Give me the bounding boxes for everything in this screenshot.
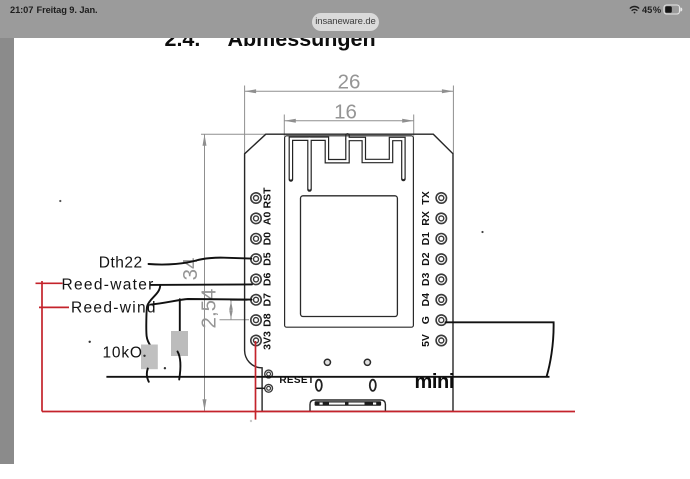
svg-text:D5: D5: [262, 252, 274, 266]
svg-text:Dth22: Dth22: [99, 255, 143, 272]
ink dot D: [250, 420, 252, 422]
pin D4: [420, 293, 446, 307]
pin D7: [251, 293, 274, 307]
svg-text:16: 16: [334, 101, 357, 124]
pin D2: [420, 252, 446, 266]
svg-text:TX: TX: [420, 191, 432, 204]
pin 3V3: [251, 331, 274, 350]
svg-text:D4: D4: [420, 293, 432, 307]
dimension 2,54: [220, 300, 250, 319]
svg-text:D8: D8: [262, 313, 274, 327]
oval pad right: [370, 380, 376, 391]
pin D5: [251, 252, 274, 266]
ink dot C: [164, 367, 166, 369]
mounting hole left: [324, 359, 330, 365]
pin D0: [251, 232, 274, 246]
svg-text:D2: D2: [420, 252, 432, 266]
pin D6: [251, 273, 274, 287]
resistor R1 (10kO): [141, 345, 158, 370]
dimension 34: [201, 134, 266, 411]
pin D1: [420, 232, 446, 246]
mounting hole right: [364, 359, 370, 365]
svg-text:10kO: 10kO: [103, 344, 143, 361]
pdf viewer left margin: [0, 38, 14, 464]
svg-text:Reed-wind: Reed-wind: [71, 300, 157, 317]
svg-text:A0: A0: [262, 212, 274, 226]
pin TX: [420, 191, 446, 204]
svg-text:D3: D3: [420, 273, 432, 287]
svg-text:2,54: 2,54: [198, 289, 221, 329]
wifi icon: [630, 6, 638, 13]
pin D8: [251, 313, 274, 327]
svg-text:5V: 5V: [420, 334, 432, 347]
shield can: [301, 196, 398, 317]
iPad status bar: [0, 0, 690, 38]
ink dot B: [143, 355, 145, 357]
wire junction drop to resistor R1: [146, 285, 160, 347]
wire Reed-water to pin D6: [151, 283, 253, 286]
wire junction drop to resistor R2: [179, 299, 181, 331]
ink dot A: [89, 341, 91, 343]
pin G: [420, 315, 446, 325]
wire Reed-wind to pin D7: [151, 299, 252, 305]
antenna meander: [291, 135, 404, 189]
pin RX: [420, 211, 446, 226]
red bottom rail: [42, 411, 575, 413]
svg-text:RX: RX: [420, 211, 432, 226]
svg-text:RST: RST: [262, 187, 274, 209]
pin A0: [251, 212, 274, 226]
ESP-12 module outline: [285, 136, 414, 327]
pin RST: [251, 187, 274, 209]
ink dot F: [481, 231, 483, 233]
svg-text:mini: mini: [415, 371, 455, 393]
ground bus wire (bottom black line): [106, 376, 549, 378]
wire Dth22 to pin D5: [149, 258, 252, 265]
svg-text:D6: D6: [262, 273, 274, 287]
svg-text:D7: D7: [262, 293, 274, 307]
wire R2 to ground line: [178, 352, 181, 380]
svg-text:G: G: [420, 316, 432, 324]
svg-text:Reed-water: Reed-water: [62, 276, 155, 293]
oval pad left: [316, 380, 322, 391]
battery icon: [664, 5, 682, 14]
RESET pin pair: [265, 370, 273, 392]
svg-text:26: 26: [338, 70, 361, 93]
pin 5V: [420, 334, 446, 347]
dimension 16: [284, 115, 413, 136]
resistor R2 (10kO): [171, 331, 188, 356]
svg-text:3V3: 3V3: [262, 331, 274, 350]
pin D3: [420, 273, 446, 287]
red supply rail left: [36, 281, 70, 412]
document heading: [0, 26, 1, 28]
board outline (WeMos D1 mini PCB): [245, 134, 453, 411]
ink dot E: [59, 200, 61, 202]
wire R1 to ground line: [147, 369, 149, 382]
svg-text:D0: D0: [262, 232, 274, 246]
url pill: [312, 13, 379, 31]
USB connector: [310, 400, 385, 411]
wire red rail to lower RESET pin: [256, 387, 265, 389]
red wire from 3V3 pin: [255, 341, 257, 420]
dimension 26: [245, 86, 454, 154]
svg-text:D1: D1: [420, 232, 432, 246]
wire G pin to ground bus: [446, 322, 554, 376]
